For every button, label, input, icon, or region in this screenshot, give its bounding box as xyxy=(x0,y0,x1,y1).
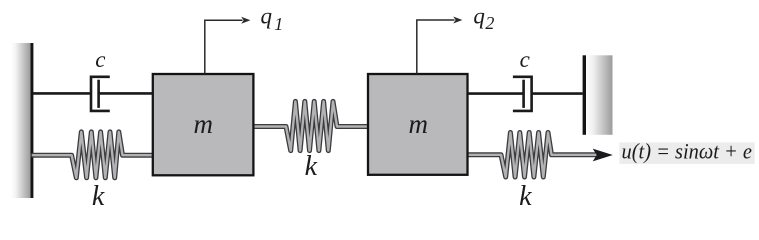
svg-text:q: q xyxy=(473,4,485,29)
svg-text:q: q xyxy=(261,4,273,29)
svg-text:k: k xyxy=(92,181,105,212)
svg-text:c: c xyxy=(520,47,530,72)
svg-text:c: c xyxy=(95,47,105,72)
svg-text:2: 2 xyxy=(485,13,494,33)
svg-text:k: k xyxy=(519,181,532,212)
svg-text:m: m xyxy=(408,109,428,139)
svg-text:m: m xyxy=(193,109,213,139)
svg-text:u(t) = sinωt + e: u(t) = sinωt + e xyxy=(622,139,753,164)
svg-text:k: k xyxy=(305,151,318,182)
svg-text:1: 1 xyxy=(274,14,283,34)
